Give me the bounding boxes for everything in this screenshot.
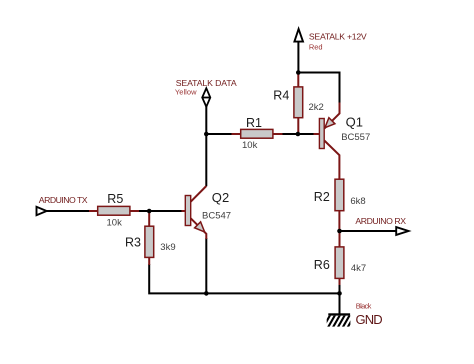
svg-text:BC547: BC547: [202, 211, 231, 222]
svg-text:ARDUINO RX: ARDUINO RX: [355, 216, 406, 226]
svg-text:Q2: Q2: [212, 190, 229, 205]
svg-text:Black: Black: [356, 302, 372, 311]
svg-text:SEATALK +12V: SEATALK +12V: [309, 31, 367, 41]
svg-text:10k: 10k: [107, 217, 123, 228]
svg-text:2k2: 2k2: [309, 102, 324, 113]
svg-text:R6: R6: [314, 258, 330, 272]
svg-text:R1: R1: [246, 116, 262, 130]
svg-text:6k8: 6k8: [350, 196, 365, 207]
svg-text:10k: 10k: [242, 140, 258, 151]
svg-text:R2: R2: [314, 190, 330, 204]
svg-text:GND: GND: [356, 312, 383, 327]
svg-text:Q1: Q1: [346, 114, 363, 129]
svg-text:SEATALK DATA: SEATALK DATA: [176, 78, 237, 88]
svg-text:R3: R3: [125, 236, 141, 250]
svg-text:Yellow: Yellow: [175, 87, 197, 96]
svg-text:ARDUINO TX: ARDUINO TX: [39, 195, 88, 205]
svg-text:4k7: 4k7: [351, 263, 366, 274]
svg-text:Red: Red: [309, 43, 323, 52]
svg-text:3k9: 3k9: [160, 242, 175, 253]
svg-text:R4: R4: [273, 89, 289, 103]
svg-text:R5: R5: [107, 192, 123, 206]
svg-text:BC557: BC557: [341, 132, 370, 143]
